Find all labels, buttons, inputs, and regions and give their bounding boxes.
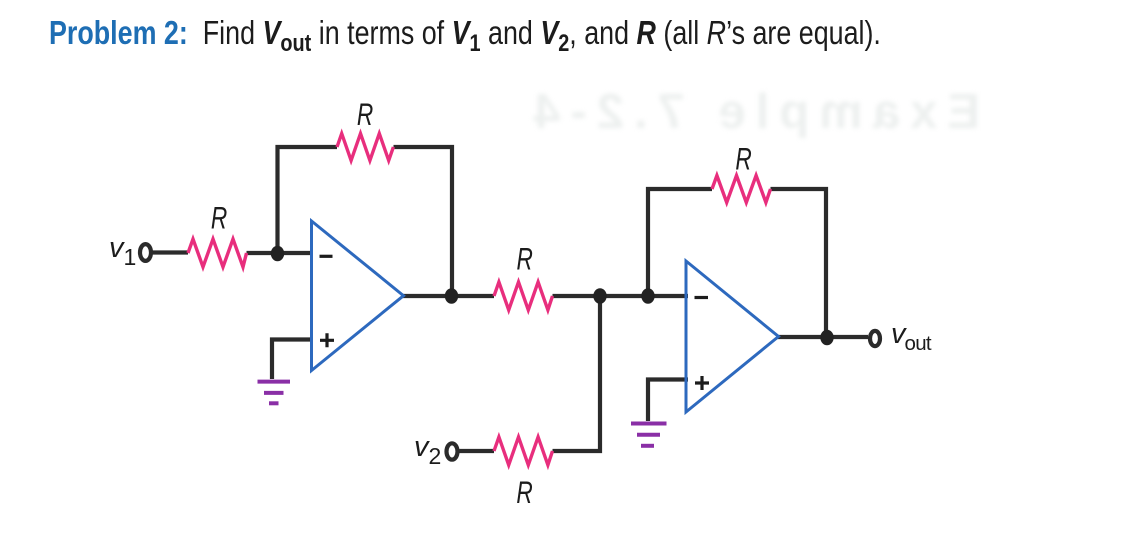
svg-text:R: R <box>357 96 373 132</box>
svg-text:R: R <box>211 200 227 236</box>
svg-text:R: R <box>516 474 532 510</box>
svg-text:R: R <box>735 141 751 177</box>
svg-text:v1: v1 <box>109 232 136 270</box>
svg-text:v2: v2 <box>414 431 441 469</box>
svg-text:vout: vout <box>891 318 932 355</box>
svg-text:R: R <box>517 241 533 277</box>
